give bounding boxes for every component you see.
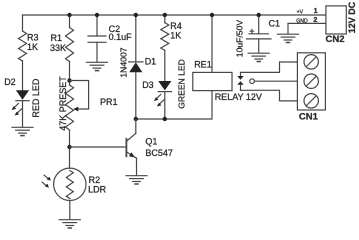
svg-text:1K: 1K	[27, 42, 38, 52]
wire rail to relay coil	[211, 15, 213, 72]
svg-text:BC547: BC547	[145, 148, 173, 158]
wire CN2 GND pin to ground	[288, 23, 326, 34]
ground under Q1 emitter	[126, 176, 147, 184]
wire C2 to ground	[96, 42, 98, 62]
svg-text:12V DC: 12V DC	[347, 1, 357, 33]
node C1	[257, 13, 261, 17]
ground CN2	[278, 34, 299, 42]
transistor Q1	[126, 119, 136, 175]
node rail R4	[163, 13, 167, 17]
wire rail to D1	[135, 15, 137, 62]
capacitor C2	[88, 36, 106, 42]
node collector/D1	[134, 117, 138, 121]
capacitor C1 10uF/50V	[247, 30, 272, 39]
svg-text:C1: C1	[269, 18, 281, 28]
svg-text:Q1: Q1	[145, 137, 157, 147]
wire PR1 to base node	[69, 130, 71, 168]
svg-text:D2: D2	[4, 77, 16, 87]
svg-text:R4: R4	[170, 21, 182, 31]
wire +12V top rail	[23, 14, 326, 16]
svg-text:+V: +V	[297, 9, 304, 15]
svg-text:D3: D3	[142, 80, 154, 90]
diode D1 1N4007	[129, 62, 143, 72]
wire rail to C1	[258, 15, 260, 34]
resistor R3	[19, 31, 27, 61]
svg-text:GREEN LED: GREEN LED	[177, 59, 187, 109]
wire D1 to collector node	[135, 72, 137, 119]
connector CN2	[326, 6, 346, 34]
svg-text:47K PRESET: 47K PRESET	[58, 76, 68, 131]
LED D2 (RED LED)	[12, 90, 30, 115]
svg-text:CN2: CN2	[326, 34, 345, 45]
wire R1 to preset	[69, 62, 71, 86]
node rail R1	[67, 13, 71, 17]
svg-text:1: 1	[314, 6, 318, 15]
wire R3 to D2	[22, 61, 24, 90]
svg-text:LDR: LDR	[88, 184, 107, 194]
svg-text:PR1: PR1	[100, 97, 118, 107]
resistor R4	[161, 23, 169, 51]
node base junction	[67, 145, 71, 149]
wire R4 to D3	[164, 50, 166, 81]
svg-text:33K: 33K	[50, 43, 66, 53]
svg-text:2: 2	[313, 15, 317, 24]
LED D3 (GREEN LED)	[154, 81, 172, 107]
svg-text:RED LED: RED LED	[31, 78, 41, 118]
svg-text:R1: R1	[51, 33, 63, 43]
node rail C2	[95, 13, 99, 17]
ground under LDR	[59, 220, 80, 228]
relay RE1 coil box	[193, 72, 232, 90]
svg-text:1K: 1K	[170, 30, 181, 40]
connector CN1	[297, 53, 325, 110]
wire D3 to collector wire	[164, 92, 166, 119]
svg-text:RELAY 12V: RELAY 12V	[215, 92, 262, 102]
svg-text:CN1: CN1	[299, 112, 319, 123]
wire rail to R1	[69, 15, 71, 28]
ground under C2	[87, 62, 108, 70]
relay contacts	[237, 72, 254, 90]
svg-text:0.1uF: 0.1uF	[109, 32, 133, 42]
preset PR1 47K	[66, 81, 89, 131]
ground under D2	[12, 127, 33, 135]
wire rail to C2	[96, 15, 98, 36]
node rail relay	[210, 13, 214, 17]
node D3/collector wire	[163, 117, 167, 121]
wire LDR to ground	[69, 201, 71, 220]
svg-text:GND: GND	[296, 18, 308, 24]
node R1/PR1 junction	[67, 78, 71, 82]
ground under C1	[248, 53, 269, 61]
wire left drop to R3	[22, 15, 24, 31]
wire rail to R4	[164, 15, 166, 23]
wire C1 to ground	[258, 39, 260, 53]
svg-text:1N4007: 1N4007	[119, 47, 129, 77]
wire relay NC to CN1 pin1	[241, 62, 298, 72]
wire base node to Q1 base	[70, 146, 127, 148]
wire relay common to CN1 pin2	[254, 80, 297, 82]
LDR R2	[42, 168, 86, 200]
node rail D1	[134, 13, 138, 17]
wire D2 to ground	[22, 101, 24, 127]
wire relay NO to CN1 pin3	[241, 90, 298, 101]
svg-text:RE1: RE1	[194, 60, 212, 70]
resistor R1	[66, 28, 74, 62]
svg-text:10uF/50V: 10uF/50V	[235, 20, 245, 58]
svg-text:D1: D1	[145, 57, 157, 67]
wire collector node to relay bottom	[136, 91, 212, 119]
svg-text:R3: R3	[27, 32, 39, 42]
